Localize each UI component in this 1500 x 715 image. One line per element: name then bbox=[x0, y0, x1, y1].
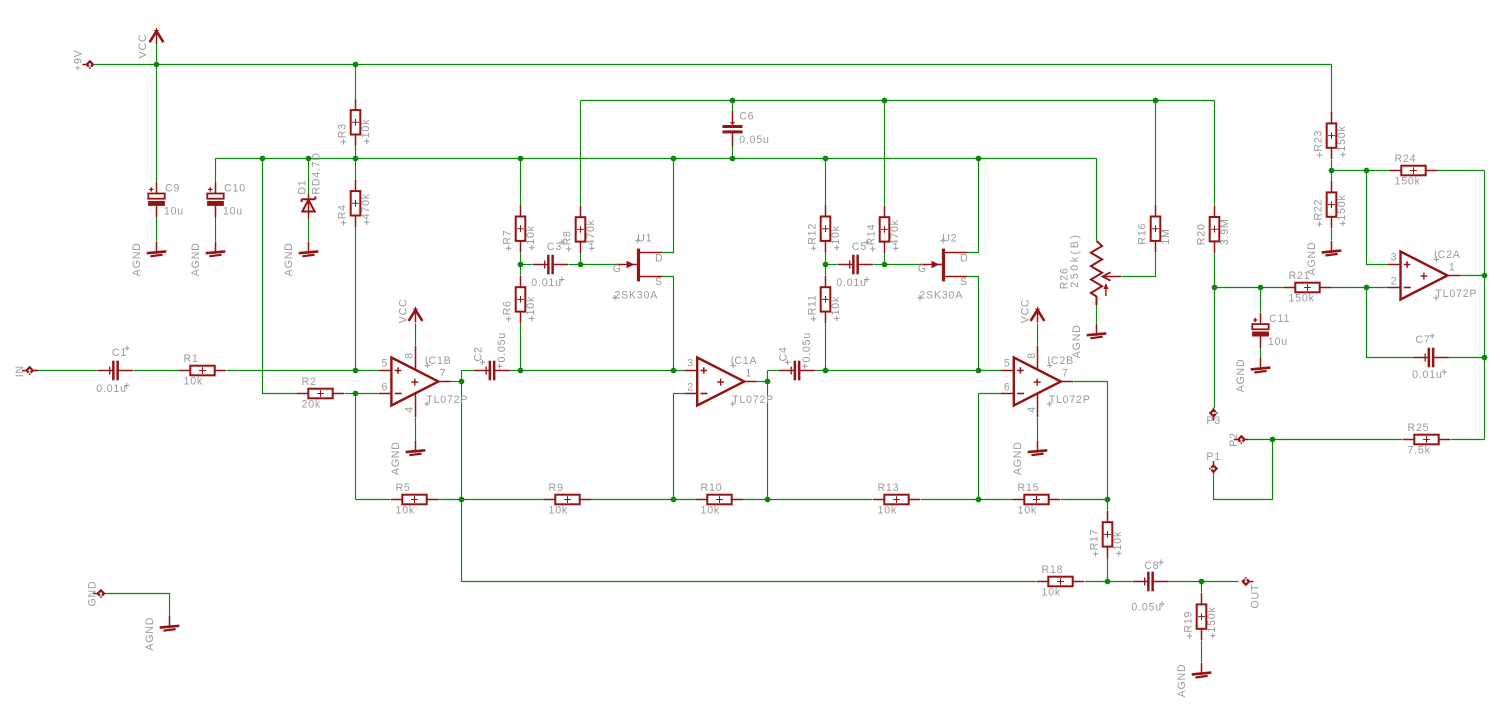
resistor R7 bbox=[501, 205, 537, 252]
ground AGND bbox=[283, 242, 318, 276]
capacitor C5 bbox=[836, 240, 873, 289]
wire to R25 bbox=[1273, 439, 1403, 441]
svg-text:C8: C8 bbox=[1144, 560, 1159, 572]
potentiometer R26 bbox=[1058, 232, 1121, 305]
wire to IC1A pin3 bbox=[521, 370, 685, 372]
svg-text:GND: GND bbox=[87, 581, 99, 607]
svg-text:RD4.7D: RD4.7D bbox=[311, 152, 323, 194]
svg-text:VCC: VCC bbox=[137, 34, 149, 59]
svg-text:R2: R2 bbox=[302, 376, 317, 388]
wire R9 to node bbox=[591, 499, 674, 501]
junction C5/R14/gate bbox=[882, 262, 888, 268]
junction fb R13/R15 bbox=[976, 497, 982, 503]
svg-text:150k: 150k bbox=[1289, 292, 1315, 304]
wire to C6 bbox=[732, 101, 734, 112]
wire +9V rail bbox=[95, 64, 1332, 66]
capacitor C9 bbox=[148, 182, 184, 217]
svg-text:R24: R24 bbox=[1395, 153, 1417, 165]
svg-text:20k: 20k bbox=[302, 398, 321, 410]
resistor R14 bbox=[865, 206, 901, 253]
wire to C10 bbox=[215, 159, 217, 183]
wire R16 to wiper bbox=[1122, 253, 1156, 277]
resistor R20 bbox=[1195, 206, 1231, 253]
svg-text:R15: R15 bbox=[1018, 482, 1040, 494]
wire R25 to out bbox=[1451, 439, 1485, 441]
svg-text:0.01u: 0.01u bbox=[96, 383, 127, 395]
svg-text:TL072P: TL072P bbox=[1049, 394, 1091, 406]
wire pin2 to C7 bbox=[1367, 288, 1414, 358]
wire R5 to node bbox=[438, 499, 462, 501]
svg-text:R8: R8 bbox=[561, 230, 573, 245]
op-amp IC2B bbox=[1001, 299, 1090, 476]
svg-text:0.01u: 0.01u bbox=[1412, 369, 1443, 381]
wire pin6 down bbox=[355, 394, 357, 500]
wire to R3 bbox=[355, 65, 357, 99]
svg-text:TL072P: TL072P bbox=[426, 394, 468, 406]
svg-text:C10: C10 bbox=[224, 182, 246, 194]
svg-text:D1: D1 bbox=[297, 179, 309, 194]
svg-text:2SK30A: 2SK30A bbox=[614, 290, 658, 302]
junction U1S/pin3 bbox=[671, 368, 677, 374]
svg-text:10k: 10k bbox=[701, 504, 720, 516]
svg-text:R13: R13 bbox=[878, 482, 900, 494]
svg-text:G: G bbox=[918, 263, 927, 275]
svg-text:AGND: AGND bbox=[283, 242, 295, 276]
wire to D1 bbox=[308, 159, 310, 195]
junction +9V/VCC bbox=[154, 62, 160, 68]
junction C3/R8/gate bbox=[578, 262, 584, 268]
svg-text:1: 1 bbox=[745, 367, 752, 379]
resistor R4 bbox=[336, 180, 372, 227]
svg-text:R18: R18 bbox=[1042, 564, 1064, 576]
junction C5/R12/R11 bbox=[823, 262, 829, 268]
wire to R21 bbox=[1215, 287, 1285, 289]
resistor R13 bbox=[873, 482, 920, 517]
svg-text:TL072P: TL072P bbox=[1435, 288, 1477, 300]
resistor R2 bbox=[297, 376, 344, 411]
svg-text:P3: P3 bbox=[1206, 415, 1221, 427]
svg-text:IN: IN bbox=[14, 365, 26, 377]
svg-text:C2: C2 bbox=[473, 346, 485, 361]
svg-text:AGND: AGND bbox=[1235, 359, 1247, 393]
capacitor C8 bbox=[1131, 560, 1168, 614]
svg-text:10k: 10k bbox=[1042, 586, 1061, 598]
resistor R3 bbox=[336, 99, 372, 146]
wire to P3 bbox=[1214, 288, 1216, 408]
wire U2 source bbox=[967, 277, 979, 371]
svg-text:0.05u: 0.05u bbox=[739, 134, 770, 146]
wire top line to R8 bbox=[580, 101, 582, 206]
svg-text:R5: R5 bbox=[396, 482, 411, 494]
junction P2/R25 bbox=[1270, 437, 1276, 443]
junction bias/R7 bbox=[518, 156, 524, 162]
svg-text:8: 8 bbox=[403, 352, 415, 359]
wire mix row bbox=[462, 581, 1037, 583]
svg-text:0.01u: 0.01u bbox=[531, 277, 562, 289]
pin P3 bbox=[1209, 408, 1218, 421]
svg-text:R17: R17 bbox=[1088, 529, 1100, 551]
junction U2S/pin5 bbox=[976, 368, 982, 374]
capacitor C3 bbox=[531, 240, 568, 289]
svg-text:R22: R22 bbox=[1312, 199, 1324, 221]
svg-text:S: S bbox=[960, 276, 968, 288]
svg-text:470k: 470k bbox=[360, 193, 372, 219]
ground AGND bbox=[1306, 241, 1341, 275]
junction R4/R1 node bbox=[353, 368, 359, 374]
svg-text:2: 2 bbox=[687, 381, 694, 393]
wire IC2B out down bbox=[1074, 382, 1108, 511]
svg-text:D: D bbox=[960, 252, 968, 264]
junction bias/R2 bbox=[260, 156, 266, 162]
svg-text:0.05u: 0.05u bbox=[1131, 601, 1162, 613]
wire R2 to node bbox=[345, 393, 356, 395]
resistor R9 bbox=[544, 482, 591, 517]
op-amp IC2A bbox=[1388, 249, 1477, 301]
junction bias/U2D bbox=[976, 156, 982, 162]
wire IN to C1 bbox=[34, 370, 98, 372]
svg-text:1M: 1M bbox=[1160, 228, 1172, 244]
junction divider/pin3 bbox=[1364, 168, 1370, 174]
resistor R23 bbox=[1312, 112, 1348, 159]
ground AGND bbox=[1176, 663, 1211, 697]
wire P2 bbox=[1249, 439, 1273, 441]
wire to C4 bbox=[768, 370, 780, 372]
wire bias rail bbox=[216, 158, 1097, 160]
junction topline/C6 bbox=[730, 98, 736, 104]
svg-text:D: D bbox=[655, 252, 663, 264]
svg-text:R12: R12 bbox=[806, 223, 818, 245]
op-amp IC1B bbox=[379, 299, 468, 476]
capacitor C4 bbox=[778, 332, 815, 380]
junction C11 bbox=[1258, 285, 1264, 291]
wire gate U1 bbox=[581, 264, 615, 266]
wire VCC stub bbox=[156, 44, 158, 65]
wire R18 to C8 bbox=[1085, 581, 1133, 583]
ground AGND bbox=[1071, 324, 1106, 358]
wire to C2 bbox=[462, 370, 475, 372]
svg-text:10k: 10k bbox=[1018, 504, 1037, 516]
svg-text:7: 7 bbox=[440, 367, 447, 379]
svg-text:1: 1 bbox=[1449, 261, 1456, 273]
wire D1 to AGND bbox=[308, 219, 310, 242]
svg-text:4: 4 bbox=[403, 406, 415, 413]
wire to R9 bbox=[462, 499, 545, 501]
wire C7 to out bbox=[1449, 357, 1485, 359]
svg-text:+9V: +9V bbox=[73, 49, 85, 71]
wire IC2A out bbox=[1460, 275, 1485, 277]
svg-text:U2: U2 bbox=[942, 233, 957, 245]
ground AGND bbox=[131, 242, 166, 276]
ground AGND bbox=[390, 441, 425, 475]
wire to R16 bbox=[1155, 101, 1157, 206]
wire U2 drain bbox=[967, 159, 979, 253]
svg-text:R10: R10 bbox=[701, 482, 723, 494]
svg-text:R9: R9 bbox=[549, 482, 564, 494]
transistor U2 bbox=[917, 233, 968, 302]
capacitor C10 bbox=[207, 182, 246, 217]
pin IN bbox=[22, 366, 38, 375]
wire top line to R14 bbox=[884, 101, 886, 206]
wire node to R24 bbox=[1332, 170, 1391, 172]
pin GND bbox=[93, 589, 105, 598]
diode D1 (zener RD4.7D) bbox=[297, 152, 323, 218]
wire node to R6 bbox=[520, 265, 522, 276]
junction pin2/C7 bbox=[1364, 285, 1370, 291]
wire V+ pin8 bbox=[415, 324, 417, 346]
pin +9V bbox=[82, 60, 94, 69]
svg-text:VCC: VCC bbox=[1019, 299, 1031, 324]
junction fb R15/R17 bbox=[1105, 497, 1111, 503]
wire C3 to node bbox=[569, 264, 581, 266]
svg-text:2: 2 bbox=[1391, 275, 1398, 287]
svg-text:150k: 150k bbox=[1336, 125, 1348, 151]
wire bias to R2 bbox=[263, 159, 298, 394]
op-amp IC1A bbox=[685, 355, 774, 407]
wire R10 to node bbox=[743, 499, 768, 501]
svg-text:10k: 10k bbox=[396, 504, 415, 516]
wire to C3 bbox=[521, 264, 533, 266]
wire rail to R12 bbox=[825, 159, 827, 206]
wire R20 down bbox=[1214, 253, 1216, 288]
wire to IC2A pin3 bbox=[1367, 171, 1389, 265]
junction R20/P3 bbox=[1212, 285, 1218, 291]
ground AGND bbox=[144, 616, 179, 650]
wire R17 down bbox=[1107, 558, 1109, 582]
wire to IC1A pin2 bbox=[674, 393, 685, 395]
svg-text:10k: 10k bbox=[360, 119, 372, 138]
svg-text:AGND: AGND bbox=[131, 242, 143, 276]
wire to C9 bbox=[156, 65, 158, 183]
supply VCC bbox=[1019, 299, 1044, 324]
svg-text:R11: R11 bbox=[806, 294, 818, 315]
svg-text:10k: 10k bbox=[830, 225, 842, 244]
wire R15 to node bbox=[1061, 499, 1108, 501]
wire R12 down bbox=[825, 253, 827, 265]
svg-text:10k: 10k bbox=[878, 504, 897, 516]
wire pin2 down bbox=[673, 394, 675, 500]
wire rail to R4 bbox=[355, 159, 357, 180]
wire C10 to AGND bbox=[215, 217, 217, 242]
wire R21 to pin2 bbox=[1331, 287, 1389, 289]
svg-text:AGND: AGND bbox=[390, 441, 402, 475]
svg-text:470k: 470k bbox=[889, 219, 901, 245]
supply VCC bbox=[397, 299, 422, 324]
wire out vertical bbox=[1484, 171, 1486, 440]
svg-text:10k: 10k bbox=[525, 225, 537, 244]
wire C8 to node bbox=[1168, 581, 1202, 583]
wire R24 to out bbox=[1437, 170, 1485, 172]
capacitor C6 bbox=[723, 111, 770, 147]
wire R11 down bbox=[825, 323, 827, 371]
wire C11 to AGND bbox=[1260, 348, 1262, 359]
svg-text:S: S bbox=[655, 276, 663, 288]
wire R19 to AGND bbox=[1201, 641, 1203, 663]
wire C9 to AGND bbox=[156, 217, 158, 242]
svg-text:4: 4 bbox=[1026, 406, 1038, 413]
wire pin6 down bbox=[978, 394, 980, 500]
junction fb R5/R9 bbox=[459, 497, 465, 503]
svg-text:C6: C6 bbox=[739, 111, 754, 123]
wire to R15 bbox=[979, 499, 1014, 501]
pin P2 bbox=[1234, 435, 1249, 444]
junction bias/R12 bbox=[823, 156, 829, 162]
svg-text:AGND: AGND bbox=[190, 242, 202, 276]
pin OUT bbox=[1241, 577, 1253, 586]
svg-text:470k: 470k bbox=[585, 219, 597, 245]
junction +9V/R3 bbox=[353, 62, 359, 68]
svg-text:10k: 10k bbox=[184, 375, 203, 387]
junction divider bbox=[1329, 168, 1335, 174]
junction bias/D1 bbox=[306, 156, 312, 162]
svg-text:R16: R16 bbox=[1136, 223, 1148, 245]
resistor R22 bbox=[1312, 181, 1348, 228]
junction mix R17 bbox=[1105, 579, 1111, 585]
junction R2/pin6 bbox=[353, 391, 359, 397]
junction C4/R11 bbox=[823, 368, 829, 374]
wire IC1B out bbox=[451, 381, 462, 383]
wire R26 to AGND bbox=[1096, 305, 1098, 324]
wire V- pin4 bbox=[415, 418, 417, 441]
resistor R24 bbox=[1390, 153, 1437, 188]
resistor R11 bbox=[806, 276, 842, 323]
svg-text:TL072P: TL072P bbox=[732, 394, 774, 406]
resistor R15 bbox=[1013, 482, 1060, 517]
junction fb R10/R13 bbox=[765, 497, 771, 503]
svg-text:R6: R6 bbox=[501, 300, 513, 315]
capacitor C7 bbox=[1412, 333, 1449, 381]
svg-text:VCC: VCC bbox=[397, 299, 409, 324]
svg-text:10k: 10k bbox=[830, 296, 842, 315]
wire R23 to node bbox=[1331, 160, 1333, 171]
wire IC1A out bbox=[757, 381, 768, 383]
svg-text:6: 6 bbox=[1004, 381, 1011, 393]
svg-text:AGND: AGND bbox=[144, 617, 156, 651]
wire rail to R7 bbox=[520, 159, 522, 206]
wire top line bbox=[581, 100, 1215, 102]
svg-text:3.9M: 3.9M bbox=[1219, 218, 1231, 245]
svg-text:R25: R25 bbox=[1408, 422, 1430, 434]
wire node to R19 bbox=[1201, 582, 1203, 593]
wire U1 drain bbox=[662, 159, 674, 253]
svg-text:10u: 10u bbox=[1268, 336, 1288, 348]
svg-text:7.5k: 7.5k bbox=[1408, 444, 1431, 456]
transistor U1 bbox=[612, 233, 663, 302]
svg-text:P2: P2 bbox=[1228, 432, 1240, 447]
resistor R21 bbox=[1284, 270, 1331, 305]
svg-text:R19: R19 bbox=[1182, 611, 1194, 633]
wire R7 down bbox=[520, 253, 522, 265]
wire V+ pin8 bbox=[1037, 324, 1039, 346]
svg-text:C4: C4 bbox=[778, 346, 790, 361]
wire node to R22 bbox=[1331, 171, 1333, 182]
svg-text:0.01u: 0.01u bbox=[836, 277, 867, 289]
resistor R1 bbox=[179, 353, 226, 388]
svg-text:AGND: AGND bbox=[1176, 664, 1188, 698]
svg-text:U1: U1 bbox=[637, 233, 652, 245]
svg-text:3: 3 bbox=[687, 357, 694, 369]
wire R8 down bbox=[580, 253, 582, 265]
ground AGND bbox=[1012, 441, 1047, 475]
svg-text:10u: 10u bbox=[164, 205, 184, 217]
wire to C11 bbox=[1260, 288, 1262, 313]
capacitor C1 bbox=[96, 346, 133, 395]
junction bias/C6 bbox=[730, 156, 736, 162]
wire R4 down bbox=[355, 227, 357, 371]
wire rail to R26 bbox=[1096, 159, 1098, 241]
wire to R20 bbox=[1214, 101, 1216, 206]
junction IC1A out bbox=[765, 379, 771, 385]
resistor R16 bbox=[1136, 205, 1172, 252]
wire GND bbox=[105, 594, 170, 617]
junction IC1B out bbox=[459, 379, 465, 385]
svg-text:AGND: AGND bbox=[1071, 324, 1083, 358]
junction topline/R16 bbox=[1153, 98, 1159, 104]
svg-text:6: 6 bbox=[381, 381, 388, 393]
svg-text:G: G bbox=[613, 263, 622, 275]
wire to R23 bbox=[1331, 65, 1333, 113]
junction C2/R6 bbox=[518, 368, 524, 374]
supply VCC bbox=[137, 28, 163, 58]
svg-text:AGND: AGND bbox=[1306, 242, 1318, 276]
wire C4 to node bbox=[815, 370, 826, 372]
wire node to pin6 bbox=[356, 393, 379, 395]
resistor R18 bbox=[1037, 564, 1084, 599]
svg-text:10u: 10u bbox=[223, 205, 243, 217]
svg-text:R4: R4 bbox=[336, 204, 348, 219]
junction C7/out bbox=[1482, 355, 1488, 361]
junction IC2A out bbox=[1482, 273, 1488, 279]
wire R3 to rail bbox=[355, 146, 357, 159]
junction topline/R14 bbox=[882, 98, 888, 104]
svg-text:5: 5 bbox=[381, 357, 388, 369]
wire node to R11 bbox=[825, 265, 827, 276]
wire to IC2B pin5 bbox=[826, 370, 1002, 372]
wire V- pin4 bbox=[1037, 418, 1039, 441]
resistor R6 bbox=[501, 276, 537, 323]
junction bias/R4 bbox=[353, 156, 359, 162]
resistor R5 bbox=[391, 482, 438, 517]
junction bias/U1D bbox=[671, 156, 677, 162]
svg-text:C11: C11 bbox=[1269, 313, 1290, 325]
wire R1 to pin5 bbox=[227, 370, 379, 372]
svg-text:P1: P1 bbox=[1206, 451, 1221, 463]
junction C3/R7/R6 bbox=[518, 262, 524, 268]
wire to R10 bbox=[674, 499, 697, 501]
resistor R19 bbox=[1182, 593, 1218, 640]
svg-text:R1: R1 bbox=[184, 353, 199, 365]
wire out node vertical bbox=[461, 371, 463, 582]
svg-text:10k: 10k bbox=[549, 504, 568, 516]
svg-text:R20: R20 bbox=[1195, 223, 1207, 245]
wire C5 to node bbox=[874, 264, 885, 266]
svg-text:8: 8 bbox=[1026, 352, 1038, 359]
wire R6 down bbox=[520, 323, 522, 371]
svg-text:150k: 150k bbox=[1206, 606, 1218, 632]
wire to R13 bbox=[768, 499, 873, 501]
svg-text:AGND: AGND bbox=[1012, 441, 1024, 475]
resistor R12 bbox=[806, 205, 842, 252]
junction fb R9/R10 bbox=[671, 497, 677, 503]
resistor R10 bbox=[696, 482, 743, 517]
svg-text:250k(B): 250k(B) bbox=[1069, 232, 1081, 287]
svg-text:OUT: OUT bbox=[1249, 584, 1261, 609]
wire C6 to rail bbox=[732, 147, 734, 159]
wire out node vertical bbox=[767, 371, 769, 500]
svg-text:7: 7 bbox=[1062, 367, 1069, 379]
resistor R25 bbox=[1403, 422, 1450, 457]
wire to C5 bbox=[826, 264, 838, 266]
svg-text:3: 3 bbox=[1391, 251, 1398, 263]
